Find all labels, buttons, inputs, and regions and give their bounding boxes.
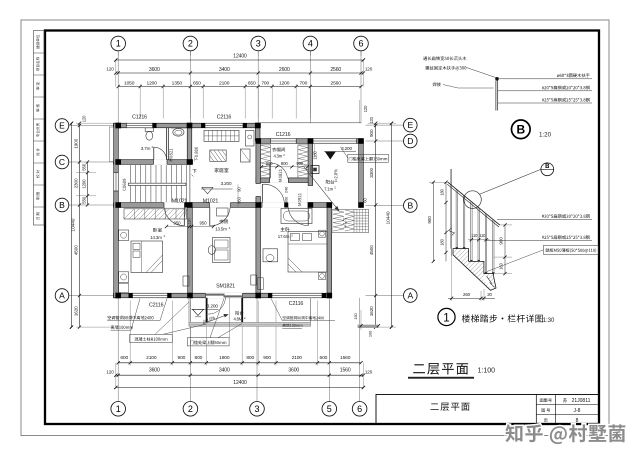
- svg-text:2560: 2560: [331, 81, 342, 87]
- svg-text:120: 120: [82, 115, 87, 122]
- svg-text:900: 900: [178, 355, 186, 361]
- svg-text:240: 240: [283, 186, 288, 193]
- left title strip: [33, 31, 44, 226]
- dresser top: [281, 209, 312, 224]
- wall axis 3 B-A: [256, 205, 261, 298]
- svg-text:3.200: 3.200: [207, 303, 219, 309]
- svg-text:C2116: C2116: [217, 114, 232, 120]
- dims 950 120 950 below doors: [167, 226, 214, 228]
- svg-text:6: 6: [358, 39, 363, 49]
- svg-text:M1021: M1021: [203, 198, 219, 204]
- svg-text:1200: 1200: [279, 81, 290, 87]
- toilet: [145, 128, 153, 132]
- svg-text:800: 800: [195, 355, 203, 361]
- svg-text:1: 1: [443, 312, 449, 324]
- B axis wall: [114, 203, 332, 208]
- plan title underlined: [413, 363, 468, 375]
- svg-text:B: B: [407, 200, 413, 210]
- svg-text:800: 800: [281, 161, 288, 166]
- duct shaft: [311, 166, 319, 174]
- shelf top: [217, 208, 229, 216]
- right dimension tiers: [375, 123, 377, 327]
- wall axis 2 B-A: [188, 205, 193, 296]
- door openings in B wall: [164, 202, 185, 207]
- family level mark: [201, 188, 233, 190]
- svg-text:1560: 1560: [340, 355, 351, 361]
- svg-text:1:100: 1:100: [478, 368, 496, 375]
- svg-text:3600: 3600: [149, 368, 160, 374]
- svg-text:900: 900: [263, 355, 271, 361]
- side table: [241, 149, 251, 162]
- leader box threshold beam: [187, 338, 229, 346]
- svg-text:1180: 1180: [313, 150, 318, 159]
- svg-text:J-8: J-8: [574, 408, 581, 414]
- svg-text:D: D: [407, 136, 413, 146]
- svg-text:180: 180: [440, 238, 445, 245]
- window C1216 in E wall: [126, 123, 152, 128]
- wall axis 2 E-C bathroom right: [187, 123, 192, 162]
- sliding door SM1821 in A wall: [206, 293, 243, 298]
- terrace level mark: [325, 152, 336, 160]
- svg-text:A: A: [59, 290, 65, 300]
- detail circle on railing: [464, 191, 482, 209]
- svg-text:1: 1: [116, 39, 121, 49]
- svg-text:10440: 10440: [385, 211, 391, 224]
- svg-text:1620: 1620: [369, 306, 374, 316]
- svg-text:2100: 2100: [146, 355, 157, 361]
- AC units near A wall: [183, 276, 189, 286]
- svg-text:550: 550: [82, 163, 87, 171]
- closet wardrobe left: [260, 145, 270, 178]
- wall axis 6 D-B terrace east: [359, 141, 364, 207]
- bottom dimension rows: [118, 362, 361, 364]
- washbasin: [173, 128, 184, 136]
- top axis bubbles and grid: [117, 51, 119, 123]
- svg-text:C: C: [59, 157, 65, 167]
- pier at E wall: [153, 123, 157, 128]
- stair detail dims left: [429, 181, 448, 183]
- svg-text:180: 180: [440, 188, 445, 195]
- svg-text:900: 900: [266, 161, 273, 166]
- svg-text:3300: 3300: [369, 168, 374, 178]
- svg-text:110: 110: [479, 233, 486, 238]
- svg-text:2100: 2100: [292, 355, 303, 361]
- bedroom1 label: [153, 228, 162, 232]
- tv cabinet axis3: [246, 131, 255, 147]
- svg-text:7.1m: 7.1m: [324, 186, 333, 191]
- sofa against north wall: [204, 130, 239, 141]
- svg-text:2: 2: [188, 39, 193, 49]
- svg-text:1050: 1050: [124, 81, 135, 87]
- svg-text:2600: 2600: [279, 67, 290, 73]
- svg-text:120: 120: [365, 370, 373, 375]
- svg-text:4500: 4500: [369, 245, 374, 255]
- door master hall leaf+arc: [261, 184, 263, 202]
- master nightstands: [319, 230, 326, 237]
- small piers at B wall: [285, 203, 289, 208]
- window C2116 right in A wall: [272, 293, 322, 298]
- AC hole label right: [283, 316, 324, 319]
- svg-text:M1021: M1021: [172, 198, 188, 204]
- piers at A wall window edges: [129, 293, 133, 298]
- level 0.800 rotated label: [195, 147, 199, 161]
- closet dims 900 800 900: [262, 166, 308, 168]
- wall axis 3 E-D: [255, 123, 260, 141]
- svg-text:4: 4: [308, 39, 313, 49]
- svg-text:3400: 3400: [219, 368, 230, 374]
- closet wardrobe right: [298, 145, 308, 178]
- break notch: [483, 276, 494, 289]
- svg-text:600: 600: [120, 355, 128, 361]
- closet label: [272, 148, 285, 152]
- right leader labels: [497, 219, 592, 221]
- svg-text:600: 600: [320, 355, 328, 361]
- title table: [535, 395, 537, 425]
- A axis wall (south): [114, 293, 332, 298]
- svg-text:1900: 1900: [74, 138, 79, 148]
- stair handrail: [128, 183, 186, 185]
- svg-text:B: B: [59, 200, 65, 210]
- stair down label: [193, 169, 197, 173]
- svg-text:3: 3: [254, 404, 259, 414]
- roof hatch left zigzag part: [333, 210, 344, 231]
- svg-text:650: 650: [248, 81, 256, 87]
- svg-text:13.5m: 13.5m: [215, 227, 227, 232]
- M0921 label rotated: [298, 193, 301, 205]
- master wardrobe left low: [257, 278, 263, 290]
- door M1021 study: [209, 207, 211, 226]
- study label: [219, 219, 228, 223]
- svg-text:900: 900: [369, 129, 374, 137]
- window C2116 left in A wall: [133, 293, 168, 298]
- svg-text:100: 100: [368, 330, 373, 337]
- door M0821 closet leaf+arc: [269, 163, 271, 178]
- svg-text:1200: 1200: [82, 179, 87, 189]
- window C0609 in west wall: [113, 173, 118, 192]
- svg-text:900: 900: [283, 196, 288, 203]
- rug hatched: [210, 150, 226, 161]
- left dimension tiers: [71, 123, 73, 327]
- svg-text:950: 950: [236, 196, 241, 203]
- svg-text:3600: 3600: [149, 67, 160, 73]
- steps hatched slab: [453, 249, 496, 291]
- svg-text:1200: 1200: [147, 81, 158, 87]
- svg-text:120: 120: [365, 67, 373, 72]
- door M0821 bathroom leaf+arc: [153, 147, 155, 160]
- left axis bubbles: [69, 125, 114, 127]
- svg-text:3.200: 3.200: [221, 181, 232, 186]
- svg-text:900: 900: [427, 216, 432, 224]
- svg-text:14.3m: 14.3m: [150, 235, 162, 240]
- closet bottom wall: [256, 178, 313, 183]
- svg-text:1560: 1560: [340, 368, 351, 374]
- svg-text:650: 650: [193, 81, 201, 87]
- desk: [213, 238, 231, 263]
- C0609 rotated stair window: [123, 179, 126, 191]
- svg-text:4.3m: 4.3m: [273, 153, 282, 158]
- columns: [115, 123, 121, 129]
- wall axis 3 D-B: [256, 141, 261, 207]
- C axis wall bathroom bottom: [114, 160, 193, 165]
- svg-text:700: 700: [261, 81, 269, 87]
- svg-text:2300: 2300: [74, 178, 79, 188]
- nightstands bedroom1: [119, 230, 129, 241]
- bottom axis bubbles: [117, 298, 119, 402]
- bottom dim 260 20: [451, 256, 453, 301]
- svg-text:260: 260: [463, 292, 471, 297]
- door M1021 bedroom1: [183, 207, 185, 226]
- svg-text:10440: 10440: [70, 218, 76, 231]
- west wall axis 1: [114, 123, 119, 298]
- svg-text:8: 8: [576, 418, 579, 424]
- svg-text:120: 120: [188, 219, 192, 225]
- svg-text:3600: 3600: [288, 368, 299, 374]
- svg-text:5: 5: [327, 404, 332, 414]
- balcony slab rails gray: [188, 298, 190, 327]
- svg-text:120: 120: [363, 105, 368, 112]
- svg-text:2100: 2100: [219, 81, 230, 87]
- svg-text:1:20: 1:20: [539, 132, 552, 139]
- SE eave gutter: [358, 325, 379, 328]
- svg-text:1620: 1620: [74, 306, 79, 316]
- right axis bubbles: [366, 124, 404, 126]
- bedroom1 bed: [131, 241, 163, 273]
- svg-text:1:30: 1:30: [543, 318, 555, 324]
- railing diagonal: [448, 182, 500, 225]
- axis 2 thin line C-B stair edge: [189, 164, 191, 202]
- E axis thin line over terrace: [261, 122, 362, 124]
- svg-text:E: E: [59, 120, 65, 130]
- svg-text:120: 120: [369, 116, 374, 123]
- M0821 rotated bathroom: [169, 149, 172, 161]
- AC shelf west of bathroom: [109, 127, 113, 162]
- svg-text:800: 800: [246, 355, 254, 361]
- leader box concrete column: [130, 334, 173, 342]
- svg-text:6: 6: [357, 404, 362, 414]
- svg-text:120: 120: [106, 67, 114, 72]
- svg-text:C2116: C2116: [149, 302, 164, 308]
- svg-text:B: B: [545, 164, 550, 170]
- wardrobe hatched top: [124, 209, 187, 219]
- wall axis 5 B-A master east: [327, 205, 332, 298]
- wall axis 4 D-B: [308, 141, 313, 203]
- master label: [280, 227, 289, 231]
- svg-text:3400: 3400: [219, 67, 230, 73]
- detail 1 title: [438, 308, 455, 325]
- svg-text:700: 700: [299, 81, 307, 87]
- svg-text:21J0811: 21J0811: [572, 398, 591, 404]
- window C2116 in E wall: [205, 123, 243, 128]
- top extension lines: [139, 84, 141, 119]
- balusters: [455, 190, 457, 249]
- svg-text:120: 120: [106, 370, 114, 375]
- svg-text:12400: 12400: [233, 380, 247, 386]
- svg-text:110: 110: [471, 233, 478, 238]
- master desk: [263, 249, 278, 262]
- north wall E axis: [114, 123, 261, 128]
- svg-text:950: 950: [174, 221, 182, 226]
- bathroom door opening in C wall: [154, 159, 168, 164]
- svg-text:900: 900: [296, 161, 303, 166]
- svg-text:C2116: C2116: [289, 301, 304, 307]
- svg-text:SM1821: SM1821: [216, 284, 235, 290]
- svg-text:3.7m: 3.7m: [141, 146, 151, 151]
- svg-text:1350: 1350: [172, 81, 183, 87]
- svg-text:4.8M: 4.8M: [233, 317, 242, 322]
- window C1216 in D wall: [271, 138, 297, 143]
- sill beam label box: [348, 154, 389, 162]
- D axis wall (3)-(6): [256, 139, 363, 144]
- balcony side walls: [206, 298, 208, 323]
- stair detail dims right: [500, 224, 512, 226]
- svg-text:2560: 2560: [330, 67, 341, 73]
- svg-text:C1216: C1216: [276, 132, 291, 138]
- bathroom partition: [166, 128, 168, 160]
- svg-text:B: B: [516, 123, 525, 137]
- svg-text:1: 1: [116, 404, 121, 414]
- svg-text:3: 3: [256, 39, 261, 49]
- door M0921 master: [307, 207, 309, 225]
- left extension + newel: [451, 169, 453, 256]
- svg-text:1800: 1800: [219, 355, 230, 361]
- terrace label: [326, 180, 334, 184]
- svg-text:150: 150: [353, 312, 358, 319]
- inner thick border frame: [45, 31, 599, 425]
- terrace window in D wall: [313, 138, 357, 143]
- top dimension rows: [116, 59, 364, 61]
- family room label: [215, 168, 229, 172]
- B bubble 1:20: [512, 120, 531, 139]
- roof hatch grid part: [356, 209, 358, 232]
- svg-text:950: 950: [200, 221, 208, 226]
- svg-text:4500: 4500: [74, 245, 79, 255]
- svg-text:12400: 12400: [233, 54, 247, 60]
- label M0821 rotated closet: [279, 169, 282, 181]
- master bed: [288, 232, 327, 273]
- svg-text:20: 20: [487, 292, 492, 297]
- svg-text:C1216: C1216: [132, 114, 147, 120]
- AC hole label left: [108, 316, 154, 320]
- balcony label: [235, 311, 243, 315]
- svg-text:550: 550: [82, 196, 87, 204]
- break zigzag on left line: [449, 228, 455, 236]
- svg-text:A: A: [407, 290, 413, 300]
- svg-text:E: E: [407, 120, 413, 130]
- terrace slope arrow: [304, 167, 339, 211]
- svg-text:2: 2: [188, 404, 193, 414]
